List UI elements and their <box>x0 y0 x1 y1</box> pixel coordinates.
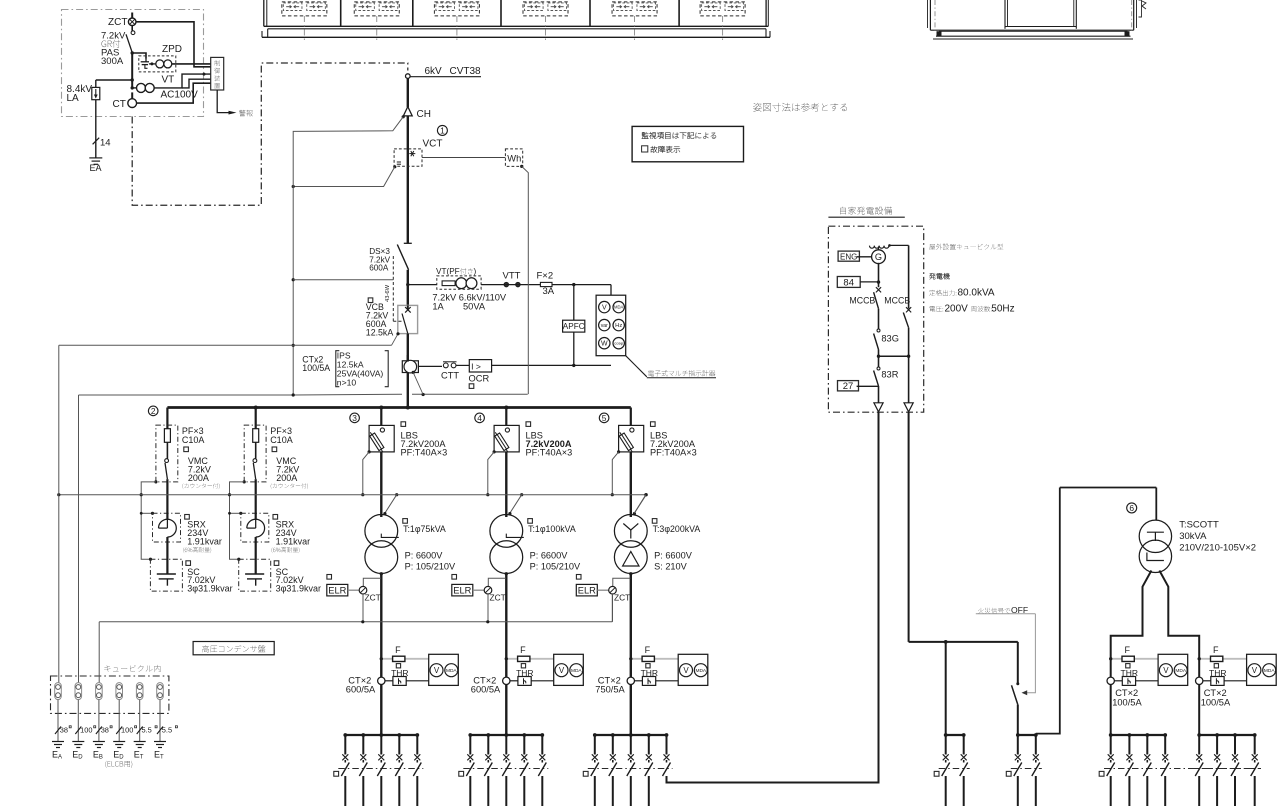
svg-text:200A: 200A <box>188 473 209 483</box>
svg-text:n>10: n>10 <box>337 377 357 387</box>
svg-text:ZCT: ZCT <box>108 17 127 28</box>
svg-text:3φ31.9kvar: 3φ31.9kvar <box>187 584 232 594</box>
svg-text:T:1φ75kVA: T:1φ75kVA <box>403 524 446 534</box>
svg-text:MDA: MDA <box>614 305 624 310</box>
svg-text:P: 6600V: P: 6600V <box>530 551 569 561</box>
svg-text:2: 2 <box>151 406 156 416</box>
svg-text:6kV: 6kV <box>425 66 443 77</box>
svg-text:C10A: C10A <box>270 435 293 445</box>
svg-text:200V: 200V <box>945 303 969 314</box>
svg-text:27: 27 <box>843 381 854 392</box>
svg-text:V: V <box>1252 666 1258 675</box>
svg-text:P: 105/210V: P: 105/210V <box>405 561 456 571</box>
svg-text:ZCT: ZCT <box>365 592 381 602</box>
svg-text:Hz: Hz <box>615 323 622 329</box>
svg-text:ZCT: ZCT <box>490 592 506 602</box>
svg-text:V: V <box>1163 666 1169 675</box>
svg-text:F: F <box>520 645 526 655</box>
svg-text:F: F <box>1213 645 1219 655</box>
svg-text:ENG: ENG <box>840 252 857 261</box>
svg-text:5.5: 5.5 <box>162 726 172 735</box>
svg-text:MDA: MDA <box>1175 668 1186 674</box>
svg-text:MDA: MDA <box>571 668 582 674</box>
svg-text:V: V <box>602 305 607 312</box>
svg-text:600A: 600A <box>369 264 389 273</box>
svg-text:1A: 1A <box>432 301 444 311</box>
svg-text:CH: CH <box>417 109 431 120</box>
svg-text:F: F <box>1125 645 1131 655</box>
svg-text:43-6W: 43-6W <box>385 284 391 302</box>
svg-text:VTT: VTT <box>503 271 521 282</box>
svg-text:T:3φ200kVA: T:3φ200kVA <box>653 524 701 534</box>
svg-text:PF:T40A×3: PF:T40A×3 <box>650 448 697 458</box>
svg-text:APFC: APFC <box>563 322 585 331</box>
svg-text:50Hz: 50Hz <box>991 303 1014 314</box>
svg-text:CTT: CTT <box>441 370 459 380</box>
svg-text:600/5A: 600/5A <box>346 685 376 695</box>
svg-text:P: 6600V: P: 6600V <box>405 551 444 561</box>
svg-text:ZCT: ZCT <box>614 592 630 602</box>
svg-text:6: 6 <box>1129 503 1134 513</box>
svg-text:G: G <box>875 252 882 262</box>
svg-text:50VA: 50VA <box>463 301 486 311</box>
svg-text:100: 100 <box>121 726 133 735</box>
svg-text:P: 6600V: P: 6600V <box>654 551 693 561</box>
svg-text:750/5A: 750/5A <box>595 685 625 695</box>
svg-text:V: V <box>683 666 689 675</box>
svg-text:84: 84 <box>843 278 854 289</box>
svg-text:V: V <box>559 666 565 675</box>
svg-text:100/5A: 100/5A <box>302 363 330 373</box>
svg-text:210V/210-105V×2: 210V/210-105V×2 <box>1179 542 1256 553</box>
svg-text:ELR: ELR <box>328 585 346 595</box>
svg-text:OCR: OCR <box>469 373 490 383</box>
svg-text:80.0kVA: 80.0kVA <box>958 287 995 298</box>
svg-text:CT: CT <box>113 99 126 110</box>
svg-text:MDA: MDA <box>446 668 457 674</box>
svg-text:600/5A: 600/5A <box>471 685 501 695</box>
svg-text:83R: 83R <box>881 370 898 380</box>
svg-text:MCCB: MCCB <box>884 296 910 306</box>
svg-text:14: 14 <box>100 137 111 148</box>
svg-text:EA: EA <box>90 163 102 173</box>
svg-text:F: F <box>645 645 651 655</box>
svg-text:100/5A: 100/5A <box>1201 697 1231 707</box>
svg-text:ZPD: ZPD <box>162 44 182 55</box>
svg-text:7.2kV: 7.2kV <box>101 31 126 42</box>
svg-text:C10A: C10A <box>182 435 205 445</box>
svg-text:MCCB: MCCB <box>849 296 875 306</box>
svg-text:): ) <box>474 267 477 276</box>
svg-text:5.5: 5.5 <box>142 726 152 735</box>
svg-text:1.91kvar: 1.91kvar <box>187 536 222 546</box>
svg-text:ELR: ELR <box>578 585 596 595</box>
svg-text:100: 100 <box>80 726 92 735</box>
svg-text:S: 210V: S: 210V <box>654 561 688 571</box>
svg-text:Wh: Wh <box>507 154 521 164</box>
svg-text:1.91kvar: 1.91kvar <box>276 536 311 546</box>
svg-text:PF:T40A×3: PF:T40A×3 <box>401 448 448 458</box>
svg-text:T:SCOTT: T:SCOTT <box>1179 519 1219 530</box>
svg-text:D: D <box>119 755 124 761</box>
svg-text:1: 1 <box>440 126 445 136</box>
svg-text:B: B <box>99 755 103 761</box>
svg-text:P: 105/210V: P: 105/210V <box>530 561 581 571</box>
svg-text:VT: VT <box>162 75 175 86</box>
svg-text:100/5A: 100/5A <box>1112 697 1142 707</box>
svg-text:12.5kA: 12.5kA <box>366 328 394 338</box>
svg-text:MDA: MDA <box>1264 668 1275 674</box>
svg-text:I >: I > <box>471 361 481 371</box>
svg-text:VCT: VCT <box>423 138 443 149</box>
svg-text:cosφ: cosφ <box>614 341 623 346</box>
svg-text:MDA: MDA <box>695 668 706 674</box>
svg-text:CVT38: CVT38 <box>450 66 482 77</box>
svg-text:3φ31.9kvar: 3φ31.9kvar <box>276 584 321 594</box>
svg-text:W: W <box>601 341 608 348</box>
svg-text:T: T <box>160 755 164 761</box>
svg-text:T:1φ100kVA: T:1φ100kVA <box>528 524 576 534</box>
svg-text:5: 5 <box>602 413 607 423</box>
svg-text:D: D <box>78 755 83 761</box>
svg-text:3: 3 <box>352 413 357 423</box>
svg-text:F: F <box>395 645 401 655</box>
svg-text:38: 38 <box>60 726 68 735</box>
svg-text:var: var <box>601 323 608 329</box>
svg-text:ELR: ELR <box>453 585 471 595</box>
svg-text:38: 38 <box>101 726 109 735</box>
svg-text:200A: 200A <box>276 473 297 483</box>
svg-text:3A: 3A <box>543 286 555 297</box>
svg-text:300A: 300A <box>101 56 124 67</box>
svg-text:PF:T40A×3: PF:T40A×3 <box>526 448 573 458</box>
svg-text:V: V <box>434 666 440 675</box>
svg-text:F×2: F×2 <box>537 271 554 282</box>
svg-text:30kVA: 30kVA <box>1179 531 1207 542</box>
svg-text:83G: 83G <box>881 334 899 344</box>
svg-text:VT(PF: VT(PF <box>436 267 460 276</box>
svg-text:4: 4 <box>477 413 482 423</box>
svg-text:LA: LA <box>67 93 80 104</box>
svg-text:A: A <box>58 755 62 761</box>
svg-text:T: T <box>140 755 144 761</box>
